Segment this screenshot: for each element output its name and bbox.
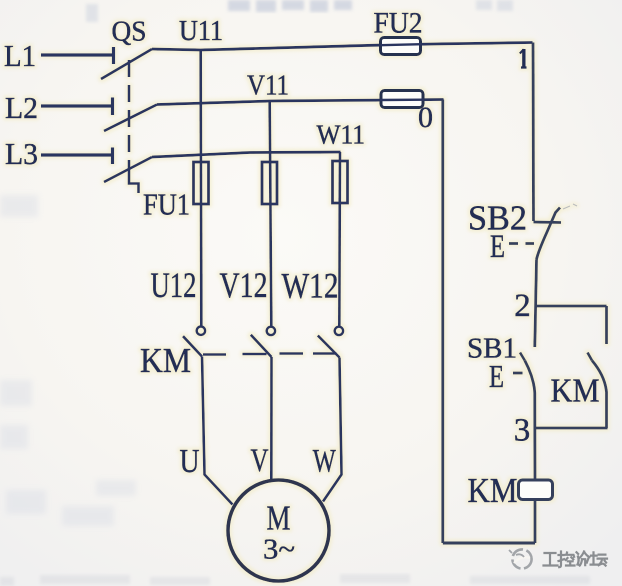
fuse FU1 phase W cartridge [333,161,348,203]
wire motor lead V [270,357,273,481]
svg-text:QS: QS [112,16,147,48]
contactor KM aux blade [592,361,607,429]
svg-text:U11: U11 [179,16,223,47]
fuse FU1 phase V cartridge [262,162,277,204]
svg-text:0: 0 [418,101,433,134]
wire node3 horizontal [535,427,608,430]
button SB2 actuator dash 2 [526,242,535,245]
switch QS fixed contact tick L1 [112,47,115,64]
motor M circle [228,480,329,581]
wire L2 lead-in [41,104,112,107]
wire through FU2 lower [380,98,424,101]
contactor KM linkage dash 1 [203,353,226,356]
watermark logo [509,549,532,568]
watermark text 工控论坛 [544,552,608,568]
button SB1 tick [520,353,525,361]
contactor KM aux tick [588,353,593,361]
switch QS blade L2 [104,105,157,132]
svg-text:2: 2 [514,288,531,324]
switch QS blade L1 [101,49,152,79]
wire W11 vertical [338,152,341,327]
contactor KM main blade W [318,336,340,358]
scan smudge near SB2 [563,204,577,209]
switch QS fixed contact tick L2 [111,98,114,116]
wire L3 lead-in [41,153,112,156]
contactor KM main blade U [183,336,202,356]
svg-text:E: E [489,358,504,394]
contactor KM main contact pivot circle U [197,327,205,335]
node 1 label [520,49,527,68]
svg-text:KM: KM [140,341,191,380]
svg-text:L1: L1 [4,38,36,73]
background bleed-through marks [228,0,352,12]
button SB2 blade [537,208,561,260]
fuse FU2 lower cartridge [381,91,423,108]
svg-text:V11: V11 [247,70,289,102]
svg-text:3~: 3~ [263,534,295,566]
svg-text:L2: L2 [5,90,38,125]
wire motor lead W [323,358,342,502]
contactor KM linkage dash 2 [243,353,267,356]
wire KM aux branch upper vertical [605,306,608,344]
fuse FU1 phase U cartridge [194,162,209,204]
svg-text:W12: W12 [282,266,339,306]
coil KM rectangle [519,480,553,500]
svg-text:L3: L3 [5,136,38,171]
wire U11 vertical [199,50,202,327]
svg-text:W11: W11 [317,120,366,150]
switch QS linkage dashed line [128,60,131,170]
wire node2 branch horizontal [535,305,607,308]
wire coil to bottom [534,500,537,544]
wire node1 vertical to SB2 [532,43,535,222]
wire V11 vertical [270,101,272,327]
wire motor lead U [202,357,233,505]
svg-text:E: E [490,229,505,265]
wire L1 lead-in [41,53,113,56]
contactor KM linkage dash 4 [313,352,337,355]
switch QS fixed contact tick L3 [111,148,114,165]
wire bottom horizontal [443,542,535,545]
svg-text:U12: U12 [151,265,197,305]
wire through FU2 upper [381,44,422,45]
switch QS blade L3 [104,157,152,182]
svg-text:KM: KM [468,471,518,510]
wire bus U11 row [152,43,533,51]
button SB1 blade and wire to coil [525,361,535,481]
button SB2 fixed contact foot [534,221,562,224]
button SB2 actuator dash 1 [509,242,518,245]
contactor KM linkage dash 3 [280,352,304,355]
svg-text:W: W [313,444,337,480]
wire node0 left vertical [441,100,444,544]
svg-text:FU2: FU2 [374,7,423,40]
svg-text:U: U [180,443,200,480]
svg-text:3: 3 [514,413,531,449]
wire bus W11 row [152,152,341,157]
switch QS handle hook [129,170,139,193]
contactor KM main blade V [251,335,272,357]
contactor KM main contact pivot circle V [267,327,275,335]
fuse FU2 upper cartridge [381,38,421,55]
svg-text:M: M [267,499,291,538]
contactor KM main contact pivot circle W [335,327,343,335]
svg-text:V: V [251,443,269,479]
svg-text:V12: V12 [220,265,268,305]
button SB1 actuator dash [513,372,523,375]
wire bus V11 row [157,100,444,105]
svg-text:FU1: FU1 [143,187,190,222]
wire SB2 to SB1 [535,260,537,348]
svg-text:KM: KM [551,373,600,410]
